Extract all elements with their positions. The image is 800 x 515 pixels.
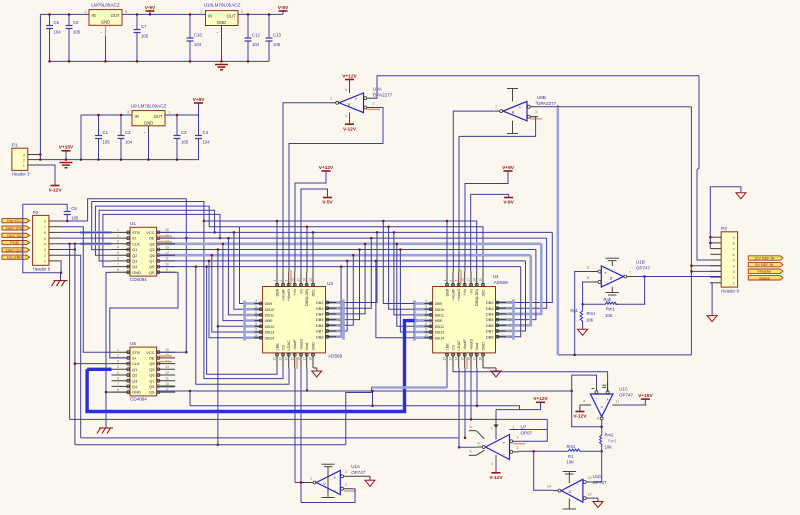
junction <box>214 231 216 233</box>
svg-text:DB6: DB6 <box>316 323 324 328</box>
port DAC STB <box>2 226 30 231</box>
svg-text:1: 1 <box>513 425 515 429</box>
svg-text:DB3: DB3 <box>486 306 494 311</box>
junction <box>375 260 377 262</box>
junction <box>217 325 219 327</box>
svg-text:5: 5 <box>587 265 589 269</box>
svg-text:DB2: DB2 <box>316 300 324 305</box>
svg-text:Q2: Q2 <box>132 253 138 258</box>
wire U3 right pin0 up <box>344 232 378 302</box>
svg-text:13: 13 <box>588 476 592 480</box>
wire ground rail <box>40 159 198 161</box>
wire bus to U3 left pin5 <box>218 250 245 327</box>
wire U1B feedback <box>615 277 644 305</box>
svg-text:10K: 10K <box>567 460 575 465</box>
svg-text:C13: C13 <box>273 33 281 38</box>
svg-text:Rm1: Rm1 <box>587 311 597 316</box>
wire Rg1 top <box>582 304 584 309</box>
svg-text:V-12V: V-12V <box>343 126 357 132</box>
svg-text:C5: C5 <box>54 20 60 25</box>
wire bottom row4 <box>70 418 548 420</box>
wire P1 pin2 stub <box>28 159 41 161</box>
wire bus row1 to U3 top pin1 <box>276 221 278 272</box>
wire section2 left drop <box>80 115 82 160</box>
svg-text:6: 6 <box>117 257 119 261</box>
power V-9V near U4 <box>503 198 514 206</box>
svg-text:Header 3: Header 3 <box>12 171 30 176</box>
wire P3 pin4 stub <box>710 265 721 267</box>
voltage regulator LM79L09ACZ <box>85 3 128 26</box>
svg-text:1: 1 <box>330 97 332 101</box>
svg-text:16: 16 <box>165 348 169 352</box>
svg-text:105: 105 <box>273 42 281 47</box>
wire U3 B2 staircase <box>204 368 283 379</box>
svg-text:DB1: DB1 <box>481 289 485 296</box>
svg-text:6: 6 <box>478 442 480 446</box>
svg-text:DB8: DB8 <box>275 289 279 296</box>
svg-text:Header 8: Header 8 <box>33 266 51 271</box>
wire U8A feedback to U3 pin3 <box>289 108 383 272</box>
svg-text:104: 104 <box>203 140 211 145</box>
capacitor C9 <box>64 204 79 221</box>
svg-text:C2: C2 <box>125 130 131 135</box>
wire U3 right pin5 up <box>344 261 348 331</box>
svg-text:10K: 10K <box>605 313 613 318</box>
svg-text:STB: STB <box>132 230 140 235</box>
junction <box>396 243 398 245</box>
wire light bus entry U4 left <box>413 301 416 341</box>
svg-text:1: 1 <box>117 348 119 352</box>
svg-text:LDAC: LDAC <box>457 340 461 350</box>
junction <box>149 13 151 15</box>
svg-text:24: 24 <box>508 306 512 310</box>
svg-text:Q7: Q7 <box>149 378 155 383</box>
svg-text:CS: CS <box>451 345 455 351</box>
svg-text:DB4: DB4 <box>486 312 494 317</box>
wire bus down to U4 right pin6 <box>514 267 521 337</box>
svg-text:U1C: U1C <box>619 387 629 392</box>
svg-text:U1D: U1D <box>593 474 603 479</box>
junction <box>68 60 70 62</box>
svg-text:+Vs: +Vs <box>463 289 467 296</box>
svg-text:6: 6 <box>733 252 735 257</box>
svg-text:26: 26 <box>303 278 307 282</box>
svg-text:Dig GND: Dig GND <box>7 256 22 260</box>
wire light stub U3 right <box>326 313 344 316</box>
wire P3 pin4 link <box>691 265 721 267</box>
op-amp U1D OP747 <box>547 472 607 510</box>
svg-text:9: 9 <box>255 328 257 332</box>
wire P2 pin4 drop <box>69 244 71 420</box>
junction <box>533 450 535 452</box>
power V+12V above U8A <box>342 73 357 79</box>
svg-text:GND: GND <box>481 342 485 351</box>
capacitor C2 <box>118 115 133 160</box>
svg-text:V-9V: V-9V <box>503 200 514 206</box>
power V+15V <box>59 145 74 160</box>
svg-text:OUT: OUT <box>154 114 163 119</box>
svg-text:CLK: CLK <box>132 241 140 246</box>
junction <box>136 13 138 15</box>
wire light stub U3 right <box>326 335 344 338</box>
svg-text:4: 4 <box>491 462 493 466</box>
svg-text:Header 9: Header 9 <box>721 289 739 294</box>
junction <box>601 426 603 428</box>
svg-text:OUT: OUT <box>111 13 120 18</box>
svg-text:+VoutS: +VoutS <box>457 289 461 302</box>
connector P1 Header 3 <box>12 143 30 177</box>
svg-text:15: 15 <box>290 357 294 361</box>
wire P2 pin2 stub <box>49 254 59 256</box>
wire U4 B5 to row4 <box>470 368 472 420</box>
svg-text:10V REF IN: 10V REF IN <box>754 257 775 261</box>
wire stair r6 long drop <box>217 326 219 445</box>
junction <box>74 248 76 250</box>
svg-text:IN: IN <box>135 114 139 119</box>
svg-text:+VoutS: +VoutS <box>287 289 291 302</box>
wire bus to U4 left pin <box>400 250 414 333</box>
wire U9 GND lead <box>148 126 150 134</box>
wire bus row1 <box>204 221 477 272</box>
junction <box>227 237 229 239</box>
junction <box>376 231 378 233</box>
svg-text:12: 12 <box>443 357 447 361</box>
svg-text:4: 4 <box>255 299 257 303</box>
svg-text:2: 2 <box>279 280 283 282</box>
svg-text:11: 11 <box>165 377 169 381</box>
wire U3 GND elbow <box>313 367 317 369</box>
resistor Rm2 10K <box>600 433 618 450</box>
junction <box>48 60 50 62</box>
capacitor C10 <box>187 14 203 61</box>
junction <box>582 303 584 305</box>
svg-text:GND: GND <box>101 19 110 24</box>
power V+9V <box>193 97 206 115</box>
svg-text:12: 12 <box>165 371 169 375</box>
junction <box>219 237 221 239</box>
svg-text:OP747: OP747 <box>351 470 366 475</box>
svg-text:LDAC: LDAC <box>287 340 291 350</box>
wire P3 pin1 stub <box>710 282 721 284</box>
svg-text:V: V <box>323 481 326 486</box>
junction <box>39 153 41 155</box>
svg-text:+: + <box>503 440 506 445</box>
svg-text:4: 4 <box>117 365 119 369</box>
junction <box>217 444 219 446</box>
wire row391 drop <box>372 391 374 406</box>
ground below Rg1 <box>578 329 588 335</box>
svg-text:Q7: Q7 <box>149 259 155 264</box>
svg-text:10K: 10K <box>605 445 613 450</box>
svg-text:18: 18 <box>479 357 483 361</box>
wire light halo CLK <box>80 243 112 246</box>
svg-text:OP747: OP747 <box>636 266 651 271</box>
wire bus to U3 left pin6 <box>212 255 245 332</box>
junction <box>709 242 711 244</box>
power ground symbol below U10 <box>215 65 228 70</box>
wire V+12V elbow to U7 pin7 <box>496 402 541 409</box>
svg-text:C9: C9 <box>71 206 77 211</box>
svg-text:DB14: DB14 <box>265 335 276 340</box>
wire light stub U3 left <box>245 336 263 339</box>
wire U1B output to P3 <box>634 276 721 278</box>
junction <box>476 405 478 407</box>
svg-text:-: - <box>355 107 357 113</box>
svg-text:3: 3 <box>733 269 735 274</box>
svg-text:+: + <box>519 105 522 110</box>
junction <box>80 159 82 161</box>
wire U4 B6 to row2 <box>476 368 478 406</box>
svg-text:V-12V: V-12V <box>48 188 62 194</box>
svg-text:6: 6 <box>587 276 589 280</box>
svg-text:Rg1: Rg1 <box>570 308 578 313</box>
svg-text:-Vs: -Vs <box>299 289 303 295</box>
wire P2 pin8 riser to U5 VCC <box>88 199 187 352</box>
svg-text:DB0(LSB): DB0(LSB) <box>475 288 479 306</box>
wire Rg1 bottom <box>582 323 584 329</box>
svg-text:DB0(LSB): DB0(LSB) <box>305 288 309 306</box>
svg-text:Vout: Vout <box>305 342 309 351</box>
junction <box>189 60 191 62</box>
svg-text:Q8: Q8 <box>149 361 155 366</box>
wire light stub U4 right <box>496 307 514 310</box>
wire bus down to U4 right pin4 light <box>514 255 531 325</box>
svg-text:+Vs: +Vs <box>293 289 297 296</box>
wire U3 B5 to U1A loop <box>300 368 302 503</box>
junction <box>601 450 603 452</box>
svg-text:OUT: OUT <box>227 14 236 19</box>
svg-text:3: 3 <box>117 359 119 363</box>
svg-text:DB8: DB8 <box>445 289 449 296</box>
svg-text:13: 13 <box>449 357 453 361</box>
svg-text:-VoutF: -VoutF <box>463 339 467 351</box>
svg-text:DB7: DB7 <box>486 329 494 334</box>
junction <box>189 390 191 392</box>
wire P3 pin9 stub <box>710 236 721 238</box>
wire bus to U4 left pin <box>389 227 415 310</box>
wire P1 pin1 to V-12V <box>40 165 55 186</box>
svg-text:5: 5 <box>117 371 119 375</box>
capacitor C3 <box>174 115 189 160</box>
svg-text:IN: IN <box>208 14 212 19</box>
junction <box>97 114 99 116</box>
junction <box>399 248 401 250</box>
svg-text:-: - <box>334 488 336 494</box>
wire U8B +input <box>538 106 691 108</box>
svg-text:P3: P3 <box>721 226 727 231</box>
wire Rm2 bottom <box>601 447 603 452</box>
wire R1 to Rm2 junction <box>582 450 601 452</box>
svg-text:C4: C4 <box>203 130 209 135</box>
svg-text:GND: GND <box>144 120 153 125</box>
svg-text:DB5: DB5 <box>486 317 494 322</box>
wire light stub U3 right <box>326 330 344 333</box>
power ground symbol on rail <box>60 163 73 168</box>
svg-text:HBE: HBE <box>435 318 443 323</box>
svg-text:27: 27 <box>297 278 301 282</box>
svg-text:CD4094: CD4094 <box>130 277 147 282</box>
wire U3 B3 staircase <box>196 267 289 385</box>
svg-text:-: - <box>519 115 521 121</box>
svg-text:4: 4 <box>425 299 427 303</box>
wire arch U1 Q4 to bus row4 <box>103 214 220 266</box>
svg-text:QS: QS <box>149 390 155 395</box>
junction <box>68 13 70 15</box>
svg-text:U4: U4 <box>493 274 499 279</box>
svg-text:+VoutF: +VoutF <box>281 288 285 301</box>
svg-text:IN: IN <box>92 13 96 18</box>
wire P2 pin5 to U1 SI <box>59 237 112 239</box>
wire P2 pin1 stub <box>49 260 59 262</box>
svg-text:VCC: VCC <box>146 350 155 355</box>
junction <box>393 231 395 233</box>
svg-text:OP07: OP07 <box>521 431 533 436</box>
wire bottom row5 <box>81 437 459 439</box>
svg-text:DB5: DB5 <box>316 317 324 322</box>
wire P2 pin7 to U5 STB <box>59 227 112 353</box>
orange net label U7 <box>513 443 525 445</box>
svg-text:8: 8 <box>345 88 347 92</box>
svg-text:16: 16 <box>165 228 169 232</box>
junction <box>203 220 205 222</box>
svg-text:V-9V: V-9V <box>145 5 156 11</box>
power V-12V below U7 <box>489 462 503 481</box>
svg-text:C10: C10 <box>194 33 202 38</box>
svg-text:AD569: AD569 <box>328 354 342 359</box>
svg-text:Q4: Q4 <box>132 384 138 389</box>
svg-text:QS: QS <box>149 264 155 269</box>
svg-text:13: 13 <box>279 357 283 361</box>
svg-text:U3: U3 <box>327 281 333 286</box>
power V-5V <box>278 5 289 15</box>
svg-text:4: 4 <box>117 245 119 249</box>
svg-text:GND: GND <box>132 270 141 275</box>
wire U4 HBE stub overlay <box>424 320 432 322</box>
svg-text:2: 2 <box>201 10 203 14</box>
svg-text:OE: OE <box>149 236 155 241</box>
svg-text:15: 15 <box>338 301 342 305</box>
wire light segment below U4 <box>372 386 448 389</box>
wire light stub U4 left <box>414 314 432 317</box>
wire U3 right pin2 up <box>344 244 366 314</box>
svg-text:6: 6 <box>255 311 257 315</box>
svg-text:8: 8 <box>44 219 46 224</box>
svg-text:PGM: PGM <box>10 241 19 245</box>
junction <box>306 389 308 391</box>
svg-text:1: 1 <box>273 280 277 282</box>
IC U5 CD4094 <box>112 341 176 402</box>
svg-text:D: D <box>569 489 572 494</box>
wire top section bottom rail <box>50 60 270 62</box>
svg-text:2: 2 <box>117 234 119 238</box>
svg-text:P2: P2 <box>33 210 39 215</box>
port Vslave <box>748 276 783 281</box>
svg-text:Q5: Q5 <box>149 367 155 372</box>
wire U8B output to U4 top pin2 <box>453 111 495 271</box>
wire light stub U3 left <box>245 302 263 305</box>
svg-text:OPA2277: OPA2277 <box>373 92 393 97</box>
svg-text:DB4: DB4 <box>316 312 324 317</box>
svg-text:CD4094: CD4094 <box>130 397 147 402</box>
svg-text:6: 6 <box>44 230 46 235</box>
svg-text:V-5V: V-5V <box>278 5 289 11</box>
svg-text:11: 11 <box>616 399 620 403</box>
wire bus to U3 left pin7 <box>209 261 245 338</box>
wire P3 pin1 to ground <box>710 283 712 316</box>
svg-text:DB11: DB11 <box>435 313 444 318</box>
svg-text:P1: P1 <box>12 143 18 148</box>
svg-text:25: 25 <box>309 278 313 282</box>
wire U5 QS2 row <box>157 390 572 392</box>
svg-text:8: 8 <box>733 241 735 246</box>
power V+9V near U4 <box>502 165 515 171</box>
svg-text:19: 19 <box>508 335 512 339</box>
svg-text:3: 3 <box>455 280 459 282</box>
resistor Rgb 10K <box>604 297 619 318</box>
svg-text:9: 9 <box>338 335 340 339</box>
wire light stub U4 left <box>414 325 432 328</box>
wire bus to U3 left pin3 <box>228 238 244 315</box>
wire thick bus <box>87 321 417 412</box>
wire bus down to U4 right pin3 <box>514 250 536 320</box>
svg-text:1: 1 <box>44 259 46 264</box>
svg-text:STB: STB <box>132 350 140 355</box>
svg-text:U5: U5 <box>130 341 136 346</box>
junction <box>220 60 222 62</box>
svg-text:6: 6 <box>117 377 119 381</box>
svg-text:C6: C6 <box>73 20 79 25</box>
svg-text:4: 4 <box>583 399 585 403</box>
svg-text:9: 9 <box>166 268 168 272</box>
svg-text:7: 7 <box>255 316 257 320</box>
wire light bus entry U3 left <box>243 301 246 341</box>
wire bus row2 <box>209 227 483 272</box>
wire regulator1 GND lead (highlighted) <box>105 25 107 36</box>
wire P3 pin3 stub <box>710 270 721 272</box>
svg-text:17: 17 <box>472 357 476 361</box>
wire U3 B1 staircase <box>207 267 277 375</box>
wire U7 pin7 riser <box>495 410 497 422</box>
wire light stub U4 right <box>496 324 514 327</box>
svg-text:OE: OE <box>149 356 155 361</box>
svg-text:Q5: Q5 <box>149 247 155 252</box>
voltage regulator U9 LM78L09ACZ <box>127 103 171 125</box>
svg-text:DB14: DB14 <box>435 335 446 340</box>
wire left drop from top rail <box>39 14 41 159</box>
wire bus to U4 left pin <box>383 221 414 304</box>
wire bus to U4 left pin <box>397 244 415 326</box>
svg-text:7: 7 <box>44 224 46 229</box>
svg-text:7: 7 <box>495 105 497 109</box>
op-amp U8A OPA2277 <box>330 80 393 125</box>
svg-text:7: 7 <box>629 271 631 275</box>
svg-text:DB12: DB12 <box>265 324 275 329</box>
port Dig VCC <box>2 219 30 224</box>
wire U5 Q4 right light <box>157 385 176 388</box>
wire U1 QS cascade to U5 SI <box>110 272 178 358</box>
signal ground below U5 <box>97 428 113 434</box>
svg-text:-VoutF: -VoutF <box>293 339 297 351</box>
svg-text:12: 12 <box>588 492 592 496</box>
junction <box>39 159 41 161</box>
svg-text:Q3: Q3 <box>132 378 138 383</box>
junction <box>464 437 466 439</box>
wire P2 pin3 link <box>59 249 75 251</box>
junction <box>211 254 213 256</box>
wire U1D +input to ground <box>591 498 598 501</box>
IC U3 AD569 <box>254 272 342 368</box>
orange net label U3 bottom <box>296 357 298 369</box>
